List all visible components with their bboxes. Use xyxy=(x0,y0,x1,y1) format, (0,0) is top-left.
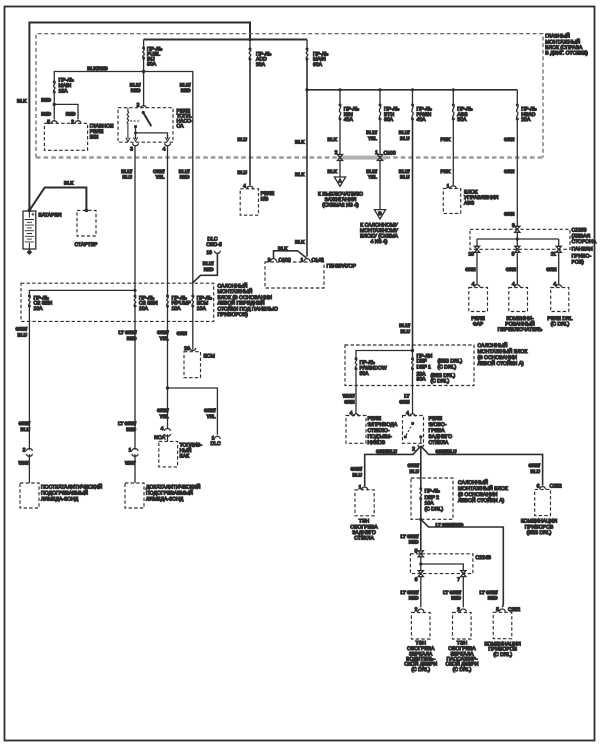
svg-text:WHT: WHT xyxy=(125,461,136,466)
svg-text:RED: RED xyxy=(41,98,51,103)
svg-text:C252: C252 xyxy=(508,607,520,613)
connector DLC OBD-II pin 16 xyxy=(206,236,222,256)
svg-text:40A: 40A xyxy=(344,117,354,123)
fuel tank ТОПЛИВНЫЙ БАК xyxy=(159,441,203,467)
svg-text:GRN/: GRN/ xyxy=(204,408,216,413)
svg-text:BLU/: BLU/ xyxy=(203,261,214,266)
svg-text:BLK: BLK xyxy=(295,240,305,245)
svg-text:2: 2 xyxy=(335,150,338,156)
svg-text:2: 2 xyxy=(457,607,460,613)
wire GRN/YEL branch to DLC pin 1 xyxy=(168,388,218,435)
wire GRN from HEAD fuse to C2256 pin 9 xyxy=(516,119,518,227)
svg-text:C100: C100 xyxy=(384,151,396,157)
svg-text:60A: 60A xyxy=(384,117,394,123)
fuse ПР-ЛЬ F/PUMP 10A xyxy=(166,295,191,312)
svg-text:BLK: BLK xyxy=(328,137,338,142)
wire BLK from IGN fuse to connector C100 pin 2 xyxy=(339,119,341,155)
svg-text:RED: RED xyxy=(488,596,498,601)
wire BLU from ADD fuse to A/C relay xyxy=(249,59,251,185)
wire O2 sensor fuse bus y=290.4 xyxy=(29,290,135,296)
svg-text:BLK: BLK xyxy=(64,181,74,186)
svg-text:30A: 30A xyxy=(457,117,467,123)
node junction BLK/RED bus tap xyxy=(142,70,145,73)
wire BLK below C100 to arrow A xyxy=(339,160,341,177)
svg-text:(C DRL): (C DRL) xyxy=(411,667,430,673)
wire to P/WINDOW fuse xyxy=(356,351,413,360)
svg-text:BLK: BLK xyxy=(295,140,305,145)
pin 11 C2256 bottom xyxy=(556,246,561,252)
svg-text:ПРИБОРОВ): ПРИБОРОВ) xyxy=(218,312,249,318)
svg-text:GRN/: GRN/ xyxy=(18,421,30,426)
svg-text:BLU/: BLU/ xyxy=(399,323,410,328)
svg-text:LT GRN/: LT GRN/ xyxy=(400,590,419,595)
svg-text:RED: RED xyxy=(204,267,214,272)
svg-text:BLU/: BLU/ xyxy=(366,130,377,135)
node junction MAIN 60A bus tap xyxy=(305,88,308,91)
pin 4 fuel pump relay xyxy=(165,143,171,146)
svg-text:НИКОВ: НИКОВ xyxy=(368,440,386,446)
svg-text:ГЕНЕРАТОР: ГЕНЕРАТОР xyxy=(327,263,357,269)
svg-text:ORN/: ORN/ xyxy=(153,169,165,174)
wire BLU/YEL from BTN fuse to connector C100 pin 1 xyxy=(379,119,381,155)
fuse ПР-ЛЬ O2 SEN 10A (1) xyxy=(28,295,53,312)
svg-text:RED: RED xyxy=(409,540,419,545)
svg-text:(C DRL): (C DRL) xyxy=(438,365,457,371)
svg-text:(C DRL): (C DRL) xyxy=(493,652,512,658)
cluster КОМБИНАЦИЯ ПРИБОРОВ (C DRL) xyxy=(485,612,522,658)
svg-text:4: 4 xyxy=(243,183,246,189)
svg-text:(C DRL): (C DRL) xyxy=(425,507,444,513)
wire LT GRN/RED to passenger mirror heater xyxy=(462,576,464,607)
svg-text:BLU: BLU xyxy=(18,333,28,338)
svg-text:5: 5 xyxy=(496,607,499,613)
sensor ПОСТКАТАЛИТИЧЕСКИЙ ПОДОГРЕВАЕМЫЙ ЛЯМБДА-ЗОНД xyxy=(20,483,103,508)
svg-text:WHT/: WHT/ xyxy=(343,394,356,399)
svg-text:2: 2 xyxy=(415,607,418,613)
svg-text:3: 3 xyxy=(130,146,133,152)
svg-text:4 ИЗ 4): 4 ИЗ 4) xyxy=(371,239,388,245)
svg-text:BLU: BLU xyxy=(400,136,410,141)
svg-text:LT GRN/: LT GRN/ xyxy=(479,590,498,595)
svg-text:BLU: BLU xyxy=(410,469,420,474)
svg-text:BLU: BLU xyxy=(353,473,363,478)
svg-text:DLC: DLC xyxy=(211,441,222,447)
svg-text:ФАР: ФАР xyxy=(473,321,484,327)
fuse ПР-ЛЬ MAIN 60A xyxy=(306,40,330,68)
relay switch contact xyxy=(142,111,145,114)
node arrow A К ВЫКЛЮЧАТЕЛЮ ЗАЖИГАНИЯ xyxy=(318,177,363,209)
fuse ПР-ЛЬ HEAD 20A xyxy=(516,90,538,123)
node junction fuel pump feed split xyxy=(166,386,169,389)
wire GRN/BLU relay down to DEF 2 fuse xyxy=(420,446,422,489)
svg-text:DEF 1: DEF 1 xyxy=(417,365,432,371)
svg-text:ПОСТКАТАЛИТИЧЕСКИЙ: ПОСТКАТАЛИТИЧЕСКИЙ xyxy=(41,484,103,491)
svg-text:15A: 15A xyxy=(59,89,69,95)
junction block САЛОННЫЙ МОНТАЖНЫЙ БЛОК (В ОСНОВАНИИ ЛЕВОЙ СТОЙКИ А) lower xyxy=(411,478,508,519)
svg-text:C224B: C224B xyxy=(476,555,492,561)
wire GRN/BLU relay to instrument cluster C252 pin 6 xyxy=(421,446,543,486)
svg-text:GRN/: GRN/ xyxy=(528,463,540,468)
fuse ПР-ЛЬ DEF 2 10A (C DRL) xyxy=(419,487,443,512)
svg-text:BLK: BLK xyxy=(328,169,338,174)
svg-text:9: 9 xyxy=(512,251,515,257)
connector C224B xyxy=(410,554,491,574)
svg-text:LT GRN/: LT GRN/ xyxy=(118,421,137,426)
pin 7 C224B bottom xyxy=(461,571,466,577)
svg-text:LT GRN/: LT GRN/ xyxy=(118,330,137,335)
connector C2256 (ЛЕВАЯ СТОРОНА ПАНЕЛИ ПРИБОРОВ) xyxy=(470,228,597,266)
wire GRN C2256 to DRL relay xyxy=(558,252,560,284)
svg-text:GRN: GRN xyxy=(504,137,515,142)
wire top fuse bus y=39.5 xyxy=(144,39,307,41)
svg-text:26: 26 xyxy=(184,346,190,352)
svg-text:NCA: NCA xyxy=(154,435,165,441)
svg-text:(C DRL): (C DRL) xyxy=(431,379,450,385)
svg-text:GRN: GRN xyxy=(504,212,515,217)
svg-text:30A: 30A xyxy=(256,62,266,68)
svg-text:RED: RED xyxy=(181,88,191,93)
svg-text:16: 16 xyxy=(206,250,212,256)
relay switch contacts xyxy=(411,422,414,425)
wire WHT to pre-cat sensor xyxy=(134,454,136,483)
junction block САЛОННЫЙ МОНТАЖНЫЙ БЛОК (В ОСНОВАНИИ ЛЕВОЙ СТОЙКИ А) upper xyxy=(345,342,527,385)
wire GRN C2256 to headlamp relay xyxy=(476,252,478,284)
svg-text:YEL: YEL xyxy=(160,414,169,419)
svg-text:BLU: BLU xyxy=(123,175,133,180)
svg-text:WHT: WHT xyxy=(18,461,29,466)
svg-text:РОВ): РОВ) xyxy=(572,260,585,266)
wire GRN ECM fuse to ECM pin 26 xyxy=(192,306,194,349)
wire ORN/YEL relay pin 4 down to F/PUMP fuse xyxy=(167,146,169,296)
svg-text:ЛЯМБДА-ЗОНД: ЛЯМБДА-ЗОНД xyxy=(146,497,184,503)
wire LT GRN/RED from DEF 2 fuse xyxy=(420,499,422,552)
svg-text:LT: LT xyxy=(404,394,409,399)
relay РЕЛЕ Э/ОБОГРЕВА ЗАДНЕГО СТЕКЛА xyxy=(403,416,453,447)
svg-text:BLU: BLU xyxy=(400,175,410,180)
wire battery feed BLK: battery + up left side to top xyxy=(29,23,250,211)
svg-text:BLU/: BLU/ xyxy=(399,130,410,135)
svg-text:BLU/: BLU/ xyxy=(179,169,190,174)
starter СТАРТЕР xyxy=(75,210,99,247)
fuse ПР-ЛЬ FUEL INJ 30A xyxy=(142,40,163,68)
wire WHT/GRN P/WINDOW fuse to power window relay xyxy=(355,369,357,414)
cluster КОМБИНАЦИЯ ПРИБОРОВ (БЕЗ DRL) xyxy=(521,489,558,536)
svg-text:YEL: YEL xyxy=(207,414,216,419)
wire BLK jumper C100 pin 2 to generator terminal xyxy=(274,251,307,258)
wire GRN/YEL F/PUMP fuse to fuel tank xyxy=(167,306,169,429)
svg-text:RED: RED xyxy=(126,427,136,432)
svg-text:ПАНЕЛИ: ПАНЕЛИ xyxy=(572,247,593,253)
svg-text:(C DRL): (C DRL) xyxy=(453,667,472,673)
svg-text:60A: 60A xyxy=(313,62,323,68)
relay РЕЛЕ Э/ПРИВОДА СТЕКЛОПОДЪЕМНИКОВ xyxy=(346,416,398,447)
svg-text:ПРИБО-: ПРИБО- xyxy=(572,253,592,259)
svg-text:СТЕКЛА: СТЕКЛА xyxy=(429,440,449,446)
svg-text:30A: 30A xyxy=(360,371,370,377)
svg-text:4: 4 xyxy=(163,146,166,152)
wire GRN/BLU relay to rear window defogger grid xyxy=(365,446,421,486)
svg-text:GRN/: GRN/ xyxy=(350,467,362,472)
svg-text:ЛЕВОЙ СТОЙКИ А): ЛЕВОЙ СТОЙКИ А) xyxy=(458,497,504,504)
svg-text:GRN: GRN xyxy=(465,267,476,272)
wire BLU/BLU from P/WIN fuse down to interior junction block xyxy=(412,119,414,351)
fuse ПР-ЛИ DEF / DEF 1 xyxy=(411,351,463,385)
svg-text:BLK/: BLK/ xyxy=(180,83,191,88)
svg-text:BLU/: BLU/ xyxy=(366,169,377,174)
svg-text:4: 4 xyxy=(161,426,164,432)
node arrow B К САЛОННОМУ МОНТАЖНОМУ БЛОКУ xyxy=(360,210,399,246)
battery БАТАРЕЯ xyxy=(23,211,62,255)
svg-text:RED: RED xyxy=(41,112,51,117)
svg-text:БАК: БАК xyxy=(180,454,190,460)
svg-text:СА: СА xyxy=(177,124,185,130)
svg-text:10A: 10A xyxy=(172,306,182,312)
svg-text:40A: 40A xyxy=(417,117,427,123)
svg-text:OBD-II: OBD-II xyxy=(206,242,222,248)
svg-text:СТОРОНА: СТОРОНА xyxy=(572,239,597,245)
heater ТЭН ОБОГРЕВА ЗЕРКАЛА ВОДИТЕЛЬСКОЙ ДВЕРИ xyxy=(404,613,437,674)
svg-text:10A: 10A xyxy=(139,306,149,312)
svg-text:30A: 30A xyxy=(417,377,427,383)
svg-text:10A: 10A xyxy=(34,306,44,312)
wire LT GRN/RED to driver mirror heater xyxy=(420,576,422,607)
heater ТЭН ОБОГРЕВА ЗАДНЕГО СТЕКЛА xyxy=(350,490,378,542)
svg-text:BLU: BLU xyxy=(238,137,248,142)
relay РЕЛЕ ФАР xyxy=(469,288,488,328)
svg-text:GRN: GRN xyxy=(399,400,410,405)
svg-text:GRN: GRN xyxy=(177,331,188,336)
relay ГЛАВНОЕ РЕЛЕ EGI xyxy=(44,123,114,150)
node junction BLU/BLU split in block xyxy=(411,349,414,352)
wire battery to starter BLK xyxy=(29,188,86,211)
svg-text:C252: C252 xyxy=(550,484,562,490)
svg-text:GRN/BLU: GRN/BLU xyxy=(376,449,398,454)
fuse ПР-ЛЬ MAIN 15A xyxy=(53,78,75,95)
generator ГЕНЕРАТОР xyxy=(265,262,357,288)
svg-text:RED: RED xyxy=(451,596,461,601)
svg-text:ПОДОГРЕВАЕМЫЙ: ПОДОГРЕВАЕМЫЙ xyxy=(41,490,88,497)
node junction DEF 2 output split xyxy=(419,518,422,521)
ECU БЛОК УПРАВЛЕНИЯ ABS xyxy=(443,188,498,213)
svg-text:(СХЕМА2 ИЗ 4): (СХЕМА2 ИЗ 4) xyxy=(322,203,359,209)
svg-text:EGI: EGI xyxy=(90,134,99,140)
svg-text:LT GRN/: LT GRN/ xyxy=(443,590,462,595)
wire GRN/BLU O2 SEN fuse 1 to connector xyxy=(28,306,30,450)
fuse ПР-ЛЬ BTN 60A xyxy=(379,90,401,123)
svg-text:RED: RED xyxy=(409,596,419,601)
svg-text:RED: RED xyxy=(66,112,76,117)
svg-text:BLU/: BLU/ xyxy=(121,169,132,174)
svg-text:GRN/: GRN/ xyxy=(157,330,169,335)
wire BLK/RED bus y=71.5 xyxy=(54,72,193,297)
ECU ECM xyxy=(184,352,215,378)
relay РЕЛЕ К/В xyxy=(240,189,275,215)
fuse ПР-ЛЬ ADD 30A xyxy=(249,40,273,68)
relay coil xyxy=(127,108,129,139)
svg-text:30A: 30A xyxy=(147,62,157,68)
svg-text:YEL: YEL xyxy=(368,175,377,180)
svg-text:10: 10 xyxy=(468,251,474,257)
wire to fuel tank xyxy=(167,434,169,441)
svg-text:ЛЯМБДА-ЗОНД: ЛЯМБДА-ЗОНД xyxy=(41,497,79,503)
fuse ПР-ЛЬ IGN 40A xyxy=(339,90,360,123)
wire BLU/BLU relay pin 3 down to O2 sensor fuse bus xyxy=(134,146,136,296)
svg-text:GRN: GRN xyxy=(506,267,517,272)
svg-text:ПЕРЕКЛЮЧАТЕЛЬ: ПЕРЕКЛЮЧАТЕЛЬ xyxy=(498,327,543,333)
svg-text:(БЕЗ DRL): (БЕЗ DRL) xyxy=(527,530,552,536)
svg-text:GRN: GRN xyxy=(344,400,355,405)
svg-text:ECM: ECM xyxy=(204,354,215,360)
node junction RED split xyxy=(53,103,56,106)
svg-text:МОНТАЖНЫЙ БЛОК: МОНТАЖНЫЙ БЛОК xyxy=(478,348,528,355)
svg-text:ПОДОГРЕВАЕМЫЙ: ПОДОГРЕВАЕМЫЙ xyxy=(146,490,193,497)
svg-text:PNK: PNK xyxy=(441,137,451,142)
svg-text:GRN: GRN xyxy=(504,169,515,174)
fuse ПР-ЛЬ ECM 10A xyxy=(191,295,213,312)
svg-text:GRN/BLU: GRN/BLU xyxy=(436,449,458,454)
svg-text:1: 1 xyxy=(301,258,304,264)
heater ТЭН ОБОГРЕВА ЗЕРКАЛА ПАССАЖИРСКОЙ ДВЕРИ xyxy=(446,613,479,674)
svg-text:САЛОННЫЙ: САЛОННЫЙ xyxy=(478,342,508,349)
svg-text:МОНТАЖНЫЙ БЛОК: МОНТАЖНЫЙ БЛОК xyxy=(458,485,508,492)
svg-text:BLU: BLU xyxy=(238,170,248,175)
node junction bus to O2 SEN fuse 2 xyxy=(133,289,136,292)
pin 3 fuel pump relay xyxy=(133,143,139,146)
wire FUEL INJ output BLK/RED down to fuel pump relay pin 2 xyxy=(143,58,145,106)
svg-text:2: 2 xyxy=(71,119,74,125)
fuse ПР-ЛЬ P/WINDOW 30A xyxy=(355,357,387,377)
svg-text:САЛОННЫЙ: САЛОННЫЙ xyxy=(458,479,488,486)
svg-text:BLK/: BLK/ xyxy=(130,83,141,88)
svg-text:GRN/: GRN/ xyxy=(157,408,169,413)
wire LT GRN DEF fuse to defogger relay xyxy=(412,369,414,414)
svg-text:5: 5 xyxy=(47,119,50,125)
svg-text:BLU: BLU xyxy=(531,469,541,474)
svg-text:1: 1 xyxy=(129,448,132,454)
wire fuse bus y=89.8 xyxy=(307,89,517,91)
svg-text:GRN/: GRN/ xyxy=(15,327,27,332)
svg-text:ПР-ЛЬ: ПР-ЛЬ xyxy=(425,489,441,495)
switch КОМБИНИРОВАННЫЙ ПЕРЕКЛЮЧАТЕЛЬ xyxy=(498,288,543,334)
svg-text:GRN/: GRN/ xyxy=(407,463,419,468)
node junction starter terminal xyxy=(85,209,89,213)
svg-text:YEL: YEL xyxy=(156,175,165,180)
junction block ГЛАВНЫЙ МОНТАЖНЫЙ БЛОК dashed box xyxy=(36,33,588,160)
svg-text:GRN: GRN xyxy=(546,267,557,272)
wire BLK from MAIN 60A down to generator xyxy=(306,59,308,257)
svg-text:BLK/RED: BLK/RED xyxy=(87,66,108,71)
node junction at top feed / fuse bus xyxy=(248,38,251,41)
fuse ПР-ЛЬ ABS 30A xyxy=(452,90,474,123)
svg-text:СТЕКЛА: СТЕКЛА xyxy=(354,536,374,542)
svg-text:СТАРТЕР: СТАРТЕР xyxy=(75,242,99,248)
svg-text:LT GRN/: LT GRN/ xyxy=(400,534,419,539)
svg-text:20A: 20A xyxy=(521,117,531,123)
wire WHT to post-cat sensor xyxy=(28,454,30,483)
svg-text:К/В: К/В xyxy=(261,197,269,203)
wire BLU/RED from DLC pin 16 to ECM fuse feed xyxy=(193,253,218,283)
fuse ПР-ЛЬ O2 SEN 10A (2) xyxy=(134,295,159,312)
svg-text:6: 6 xyxy=(415,577,418,583)
svg-text:ABS: ABS xyxy=(464,201,475,207)
svg-text:YEL: YEL xyxy=(368,136,377,141)
svg-text:YEL: YEL xyxy=(160,336,169,341)
wire LT GRN/RED branch to cluster C DRL xyxy=(421,519,504,607)
svg-text:LT GRN/RED: LT GRN/RED xyxy=(436,522,464,527)
svg-text:RED: RED xyxy=(180,175,190,180)
wire PNK from ABS fuse to ABS control unit xyxy=(452,119,454,185)
svg-text:BLK: BLK xyxy=(295,172,305,177)
svg-text:(C DRL): (C DRL) xyxy=(551,321,570,327)
svg-text:BLU: BLU xyxy=(21,427,31,432)
svg-text:RED: RED xyxy=(131,88,141,93)
pin 6 C224B bottom xyxy=(418,571,423,577)
wire BLU/YEL below C100 to arrow B xyxy=(379,160,381,209)
svg-text:BLU: BLU xyxy=(401,329,411,334)
svg-text:БАТАРЕЯ: БАТАРЕЯ xyxy=(39,213,62,219)
fuse ПР-ЛЬ P/WIN 40A xyxy=(411,90,433,123)
sensor ДОКАТАЛИТИЧЕСКИЙ ПОДОГРЕВАЕМЫЙ ЛЯМБДА-ЗОНД xyxy=(125,483,201,508)
svg-text:RED: RED xyxy=(127,336,137,341)
wire LT GRN/RED O2 SEN fuse 2 to connector xyxy=(134,306,136,450)
svg-text:BLK: BLK xyxy=(17,99,27,104)
relay РЕЛЕ ТОПЛ. НАСОСА xyxy=(118,108,193,143)
svg-text:11: 11 xyxy=(551,251,556,257)
svg-text:ДОКАТАЛИТИЧЕСКИЙ: ДОКАТАЛИТИЧЕСКИЙ xyxy=(146,484,201,491)
svg-text:C149: C149 xyxy=(312,258,324,264)
svg-text:7: 7 xyxy=(457,577,460,583)
wire MAIN 15A output RED to EGI relay pins 5 and 2 xyxy=(54,92,78,120)
junction block САЛОННЫЙ МОНТАЖНЫЙ БЛОК (В ОСНОВАНИИ ЛЕВОЙ ПЕРЕДНЕЙ СТОЙКИ ПОД ПАНЕЛЬЮ ПРИБОРОВ) xyxy=(21,283,278,322)
svg-text:В ДВИГ. ОТСЕКЕ): В ДВИГ. ОТСЕКЕ) xyxy=(545,51,588,57)
pin 10 C2256 bottom xyxy=(474,246,479,252)
svg-text:PNK: PNK xyxy=(441,169,451,174)
svg-text:BLU/: BLU/ xyxy=(399,169,410,174)
relay РЕЛЕ DRL (C DRL) xyxy=(547,288,572,328)
svg-text:BLK: BLK xyxy=(278,246,288,251)
svg-text:2: 2 xyxy=(23,448,26,454)
svg-text:10A: 10A xyxy=(197,306,207,312)
wire GRN C2256 to combination switch xyxy=(516,252,518,284)
pin 9 C2256 bottom xyxy=(515,246,520,252)
node junction battery positive xyxy=(28,209,32,213)
svg-text:ЛЕВОЙ СТОЙКИ А): ЛЕВОЙ СТОЙКИ А) xyxy=(478,360,524,367)
svg-text:C100: C100 xyxy=(279,258,291,264)
